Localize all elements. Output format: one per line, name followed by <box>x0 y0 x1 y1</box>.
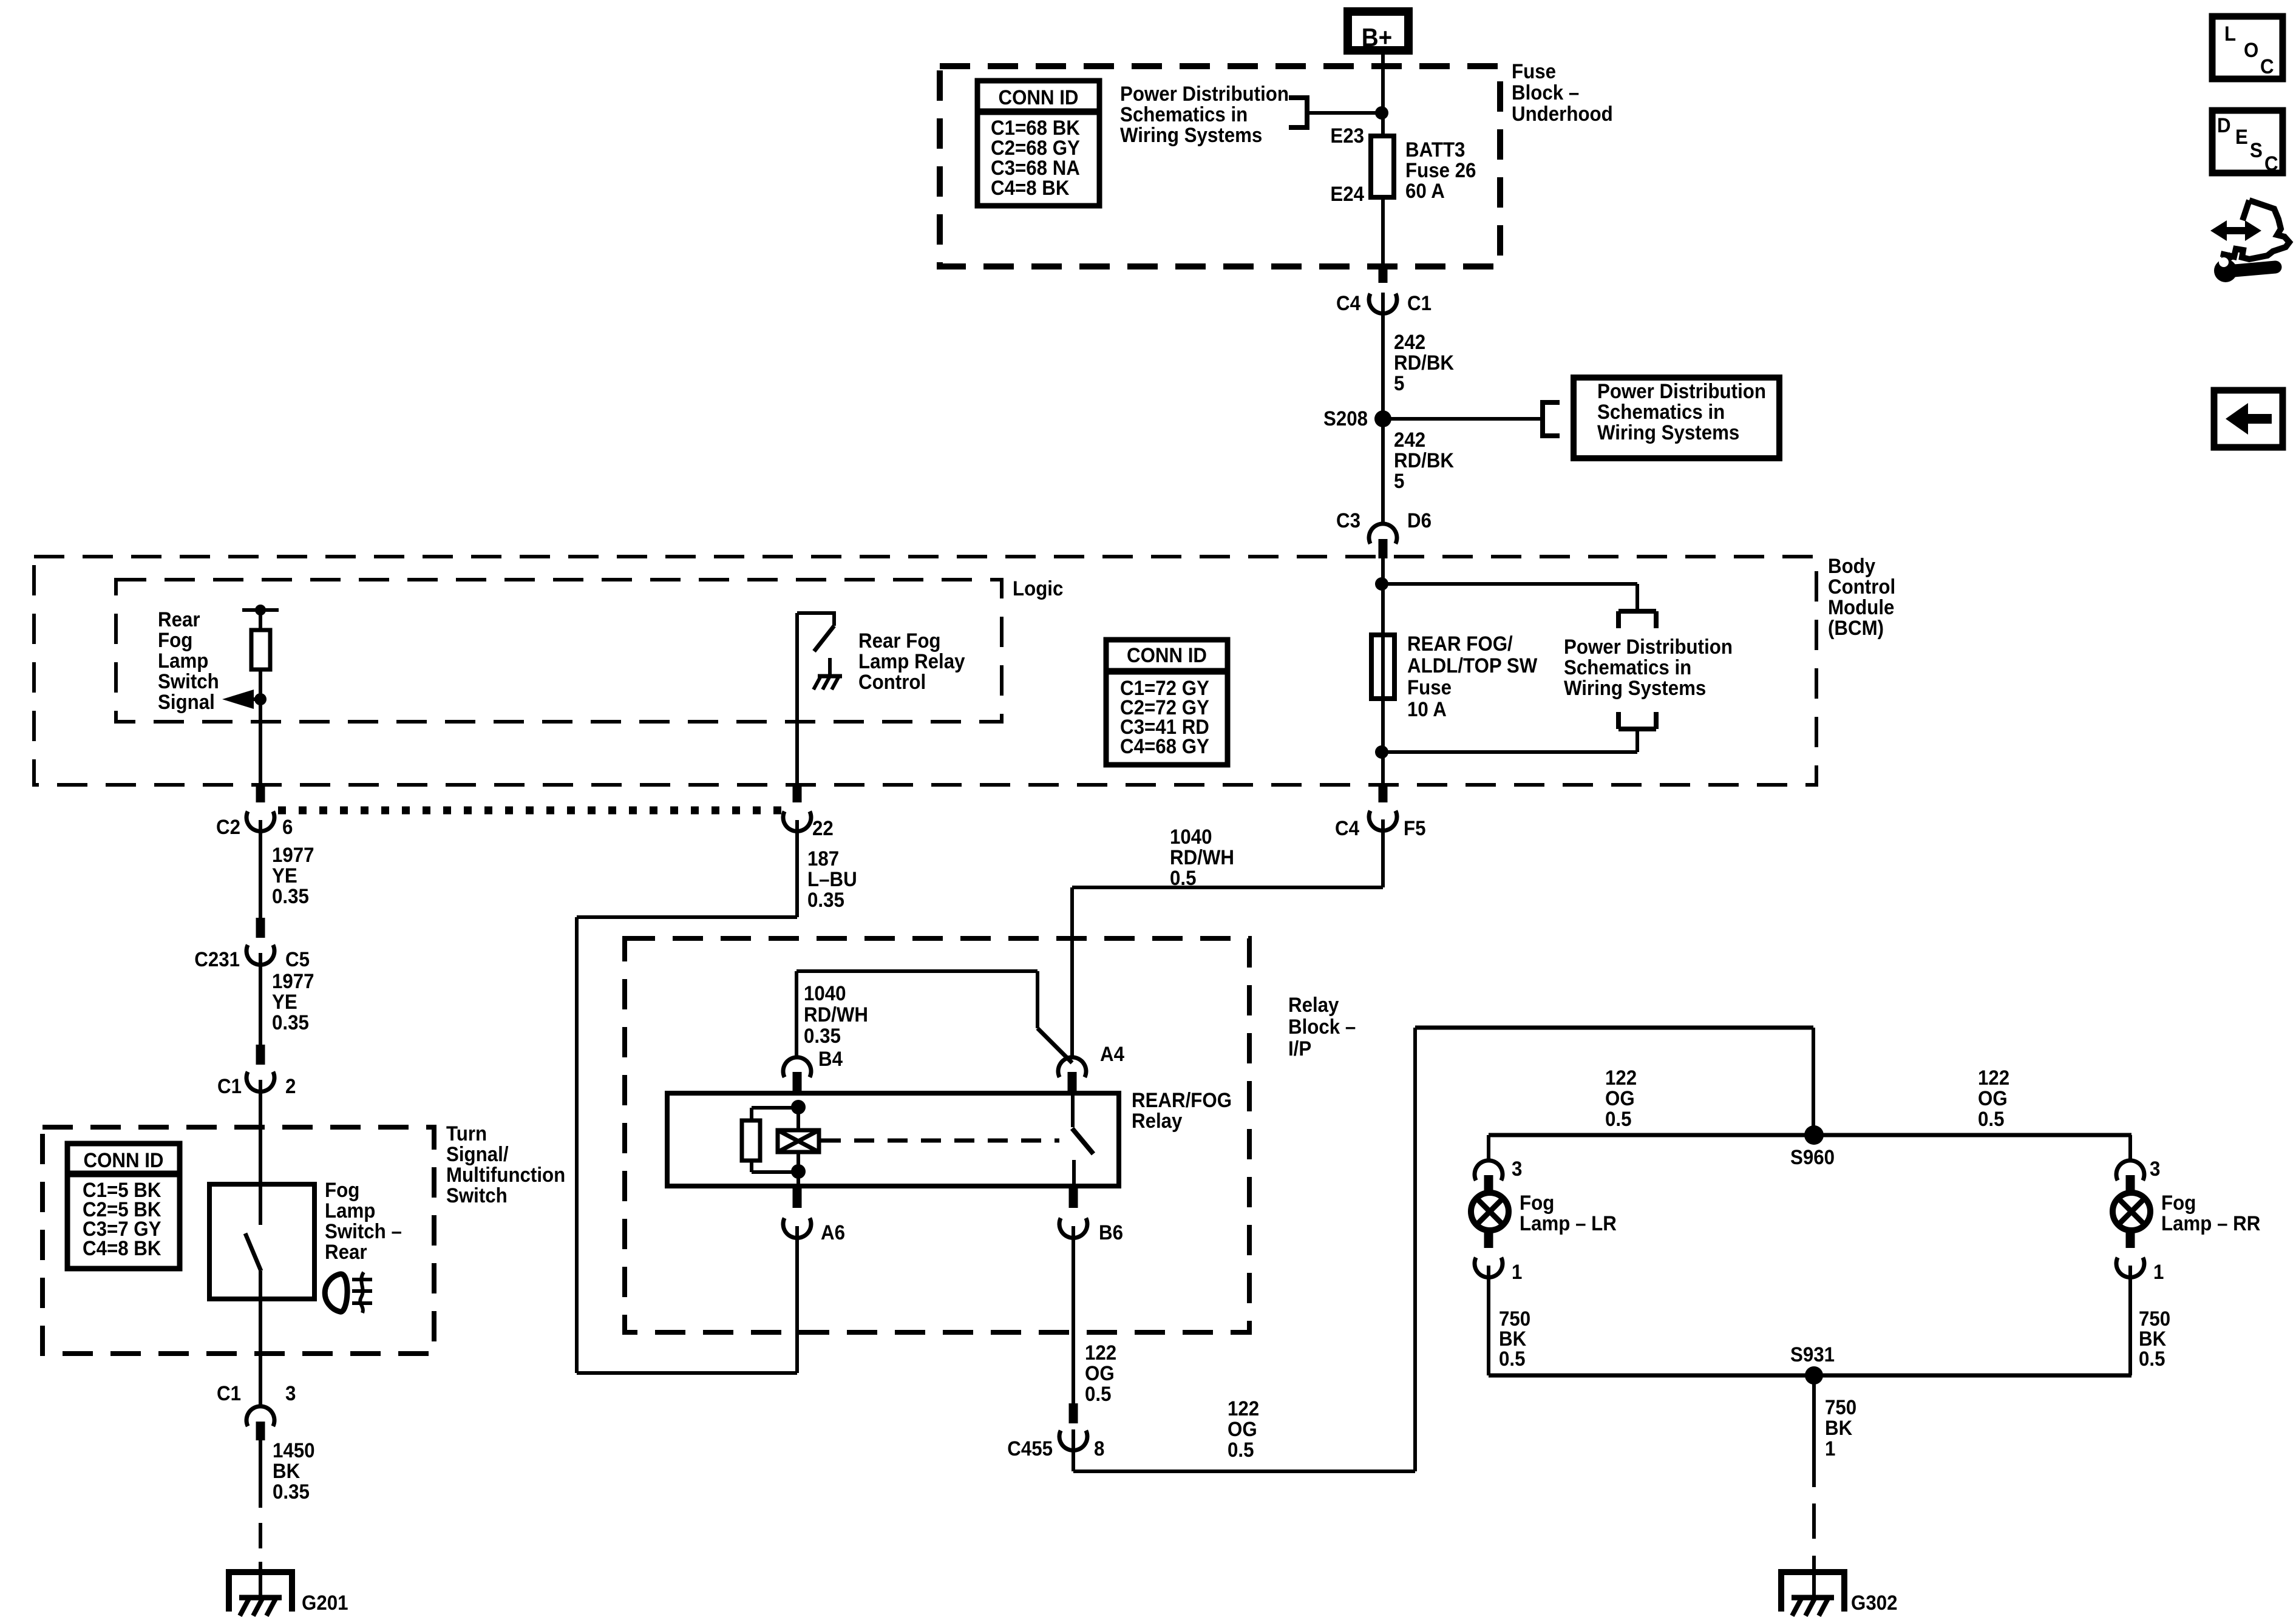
connector A6 of relay <box>783 1186 845 1244</box>
svg-text:0.5: 0.5 <box>1978 1107 2004 1131</box>
CONN ID table (fuse block) <box>977 81 1099 206</box>
label Fuse Block - Underhood <box>1512 59 1613 126</box>
svg-text:750: 750 <box>1825 1395 1856 1419</box>
CONN ID table (multifunction switch) <box>67 1144 180 1269</box>
svg-text:Signal: Signal <box>158 690 215 714</box>
svg-text:0.5: 0.5 <box>2139 1347 2165 1371</box>
wire B+ to fuse BATT3 <box>1381 55 1385 138</box>
svg-text:OG: OG <box>1228 1417 1257 1441</box>
icon wrench <box>2214 256 2275 282</box>
note Power Distribution Schematics in Wiring Systems (BCM) <box>1564 635 1733 700</box>
svg-text:Multifunction: Multifunction <box>446 1163 565 1187</box>
svg-text:0.5: 0.5 <box>1228 1438 1254 1462</box>
svg-text:YE: YE <box>272 864 297 887</box>
svg-text:C1: C1 <box>1407 291 1432 315</box>
fog lamp RR pin 1 <box>2116 1230 2164 1283</box>
wire B6 to C455 <box>1072 1226 1075 1405</box>
rear fog lamp relay control switch <box>797 611 834 651</box>
svg-text:Rear: Rear <box>325 1240 367 1264</box>
svg-text:Fuse 26: Fuse 26 <box>1405 158 1476 182</box>
label Body Control Module (BCM) <box>1828 554 1895 640</box>
wire pin 22 to relay A6 (187 L-BU) <box>577 820 797 1373</box>
svg-text:D6: D6 <box>1407 509 1432 532</box>
wire C3 through BCM to F5 <box>1381 558 1385 802</box>
svg-text:Signal/: Signal/ <box>446 1142 509 1166</box>
svg-text:L–BU: L–BU <box>807 867 857 891</box>
wire to internal power distribution (upper) <box>1382 584 1637 613</box>
junction dot switch signal <box>254 693 267 705</box>
label wire 122 OG 0.5 (right) <box>1978 1066 2009 1131</box>
label Relay Block - I/P <box>1288 993 1356 1060</box>
svg-text:S: S <box>2250 138 2263 162</box>
svg-text:E: E <box>2235 125 2248 149</box>
svg-text:2: 2 <box>285 1074 296 1098</box>
connector B6 of relay <box>1059 1186 1123 1244</box>
svg-text:3: 3 <box>1512 1157 1522 1181</box>
label wire 1040 RD/WH 0.35 <box>804 981 868 1048</box>
svg-text:242: 242 <box>1394 330 1425 354</box>
svg-text:OG: OG <box>1085 1361 1115 1385</box>
svg-text:3: 3 <box>285 1381 296 1405</box>
svg-text:1977: 1977 <box>272 969 314 993</box>
wire resistor to connector C2 pin 6 <box>259 670 262 787</box>
svg-text:C3: C3 <box>1336 509 1360 532</box>
svg-text:Fuse: Fuse <box>1512 59 1556 83</box>
wire pin 2 to fog lamp switch <box>259 1080 262 1184</box>
label E23 <box>1330 124 1364 147</box>
svg-text:Relay: Relay <box>1288 993 1339 1017</box>
fuse block - underhood dashed box <box>940 66 1500 266</box>
svg-text:YE: YE <box>272 990 297 1014</box>
svg-text:OG: OG <box>1978 1086 2008 1110</box>
svg-text:0.5: 0.5 <box>1085 1382 1111 1406</box>
connector C4/F5 of BCM <box>1335 787 1425 839</box>
note Power Distribution Schematics in Wiring Systems (fuse block) <box>1120 82 1289 147</box>
wire fuse 26 to connector C4 <box>1381 197 1385 269</box>
label wire 122 OG 0.5 (B6) <box>1085 1341 1116 1406</box>
svg-text:B6: B6 <box>1099 1221 1123 1244</box>
svg-text:0.5: 0.5 <box>1170 866 1196 890</box>
svg-text:B4: B4 <box>818 1047 843 1071</box>
svg-text:0.35: 0.35 <box>273 1480 310 1503</box>
connector B4 of relay <box>783 1047 843 1093</box>
fuse REAR FOG/ALDL/TOP SW 10A <box>1371 635 1394 699</box>
connector C1 pin 3 <box>217 1381 296 1440</box>
relay block I/P dashed box <box>625 938 1249 1332</box>
svg-text:8: 8 <box>1094 1437 1104 1460</box>
wire C455 to S960 <box>1073 1028 1813 1471</box>
svg-text:S960: S960 <box>1790 1145 1835 1169</box>
svg-text:Switch –: Switch – <box>325 1219 402 1243</box>
svg-text:Fog: Fog <box>158 628 192 652</box>
svg-text:122: 122 <box>1085 1341 1116 1364</box>
label E24 <box>1330 182 1364 206</box>
svg-text:C1: C1 <box>217 1381 241 1405</box>
logic dashed box <box>116 580 1002 722</box>
svg-text:Power Distribution: Power Distribution <box>1120 82 1289 106</box>
svg-text:Schematics in: Schematics in <box>1597 400 1725 424</box>
svg-text:1: 1 <box>2153 1260 2164 1284</box>
svg-text:Block –: Block – <box>1512 81 1579 104</box>
svg-text:Fog: Fog <box>325 1178 359 1202</box>
svg-text:CONN ID: CONN ID <box>83 1148 163 1172</box>
svg-text:C: C <box>2264 152 2278 175</box>
svg-text:Lamp – LR: Lamp – LR <box>1520 1212 1617 1235</box>
wire F5 to relay A4 <box>1072 819 1383 1059</box>
label Logic <box>1013 577 1063 600</box>
svg-text:C: C <box>2260 55 2274 78</box>
svg-text:A4: A4 <box>1100 1042 1124 1066</box>
svg-text:0.5: 0.5 <box>1605 1107 1631 1131</box>
wire switch to connector C1 pin 3 <box>259 1299 262 1406</box>
wire S208 to power distribution note <box>1383 417 1543 421</box>
relay coil element <box>778 1130 819 1152</box>
fog lamp RR pin 3 <box>2116 1157 2160 1193</box>
CONN ID table (BCM) <box>1106 640 1228 765</box>
svg-text:3: 3 <box>2150 1157 2160 1181</box>
svg-text:C4: C4 <box>1336 291 1360 315</box>
svg-text:CONN ID: CONN ID <box>998 86 1078 109</box>
icon back arrow box <box>2214 390 2283 447</box>
svg-text:Block –: Block – <box>1288 1015 1356 1039</box>
svg-text:Lamp Relay: Lamp Relay <box>858 649 965 673</box>
bracket to power distribution note <box>1289 95 1307 130</box>
svg-text:Lamp: Lamp <box>325 1199 375 1222</box>
svg-text:D: D <box>2217 114 2231 137</box>
fog lamp LR <box>1471 1193 1509 1230</box>
fuse BATT3 Fuse 26 60 A <box>1371 136 1394 197</box>
svg-text:Lamp – RR: Lamp – RR <box>2161 1212 2260 1235</box>
svg-text:Control: Control <box>1828 575 1895 598</box>
signal arrow to rear fog lamp switch <box>222 690 260 709</box>
svg-text:BATT3: BATT3 <box>1405 138 1465 161</box>
label wire 1977 YE 0.35 (lower) <box>272 969 314 1034</box>
svg-text:122: 122 <box>1978 1066 2009 1090</box>
svg-text:0.35: 0.35 <box>807 888 844 912</box>
svg-text:1977: 1977 <box>272 843 314 867</box>
label Rear Fog Lamp Switch Signal <box>158 608 219 714</box>
label REAR/FOG Relay <box>1132 1088 1232 1133</box>
splice S208 <box>1323 407 1391 430</box>
svg-text:Schematics in: Schematics in <box>1120 103 1248 126</box>
label wire 750 BK 0.5 (right) <box>2139 1307 2170 1371</box>
junction dot BCM upper <box>1375 577 1388 591</box>
wire fog lamp RR to ground loop <box>2128 1266 2132 1375</box>
svg-text:REAR FOG/: REAR FOG/ <box>1407 632 1513 656</box>
svg-text:C5: C5 <box>285 947 310 971</box>
svg-text:6: 6 <box>282 815 293 839</box>
svg-text:L: L <box>2224 22 2236 46</box>
fog lamp switch contact <box>245 1184 261 1299</box>
svg-text:Rear: Rear <box>158 608 200 631</box>
icon adjust double arrow <box>2210 220 2261 241</box>
label BATT3 Fuse 26 60 A <box>1405 138 1476 203</box>
svg-text:1040: 1040 <box>804 981 846 1005</box>
wire S931 to G302 <box>1812 1375 1816 1598</box>
svg-text:RD/WH: RD/WH <box>1170 846 1234 869</box>
wire fog lamp LR to ground loop <box>1487 1266 1490 1375</box>
svg-text:C4=8 BK: C4=8 BK <box>991 176 1070 200</box>
connector C4/C1 of fuse block <box>1336 267 1432 314</box>
svg-text:Fuse: Fuse <box>1407 676 1452 699</box>
svg-text:RD/WH: RD/WH <box>804 1003 868 1026</box>
label Fog Lamp Switch - Rear <box>325 1178 402 1264</box>
splice S960 <box>1790 1125 1835 1168</box>
svg-text:0.35: 0.35 <box>804 1024 841 1048</box>
svg-text:B+: B+ <box>1362 22 1392 52</box>
svg-text:I/P: I/P <box>1288 1037 1311 1060</box>
splice S931 <box>1790 1343 1835 1385</box>
svg-text:C455: C455 <box>1007 1437 1053 1460</box>
icon hand outline <box>2221 200 2289 259</box>
svg-text:Switch: Switch <box>158 670 219 693</box>
label Fog Lamp - LR <box>1520 1191 1617 1235</box>
fog lamp LR pin 3 <box>1475 1157 1522 1193</box>
svg-text:E23: E23 <box>1330 124 1364 147</box>
internal power distribution lower bracket <box>1618 712 1656 729</box>
label wire 1450 BK 0.35 <box>273 1439 315 1503</box>
wire bracket to junction E23 <box>1307 111 1382 115</box>
connector A4 of relay <box>1058 1042 1124 1093</box>
wire C5 to C1 <box>259 953 262 1046</box>
svg-text:Rear Fog: Rear Fog <box>858 629 941 653</box>
svg-text:BK: BK <box>273 1459 301 1483</box>
wire C1 to S208 <box>1381 293 1385 419</box>
wire relay control to pin 22 <box>795 613 799 787</box>
resistor rear fog lamp switch signal <box>251 630 270 670</box>
label wire 187 L-BU 0.35 <box>807 847 857 912</box>
note box Power Distribution Schematics in Wiring Systems <box>1574 378 1779 458</box>
svg-text:0.5: 0.5 <box>1499 1347 1525 1371</box>
label wire 1977 YE 0.35 (upper) <box>272 843 314 908</box>
svg-text:122: 122 <box>1228 1397 1259 1420</box>
svg-text:Body: Body <box>1828 554 1875 578</box>
svg-text:C231: C231 <box>194 947 240 971</box>
svg-text:10 A: 10 A <box>1407 697 1447 721</box>
svg-text:C1: C1 <box>217 1074 242 1098</box>
svg-text:Fog: Fog <box>1520 1191 1554 1215</box>
connector C3/D6 of BCM <box>1336 509 1432 558</box>
svg-text:Wiring Systems: Wiring Systems <box>1597 421 1739 444</box>
svg-text:S931: S931 <box>1790 1343 1835 1366</box>
svg-text:O: O <box>2244 38 2258 62</box>
wire fog lamp ground loop <box>1489 1374 2131 1378</box>
body control module dashed box <box>34 557 1816 785</box>
fog lamp icon <box>325 1272 372 1313</box>
connector C231/C5 <box>194 918 310 971</box>
fog lamp RR <box>2113 1193 2150 1230</box>
wire S208 to connector C3 <box>1381 419 1385 524</box>
turn signal/multifunction switch dashed box <box>42 1127 434 1354</box>
label wire 750 BK 0.5 (left) <box>1499 1307 1530 1371</box>
svg-text:Module: Module <box>1828 595 1894 619</box>
connector C2 pin 22 of BCM <box>783 787 834 839</box>
svg-text:REAR/FOG: REAR/FOG <box>1132 1088 1232 1112</box>
svg-text:22: 22 <box>812 816 834 840</box>
label Turn Signal/Multifunction Switch <box>446 1122 565 1207</box>
internal ground of relay control <box>813 658 842 690</box>
label wire 1040 RD/WH 0.5 <box>1170 825 1234 890</box>
label wire 122 OG 0.5 (C455) <box>1228 1397 1259 1462</box>
internal power distribution upper bracket <box>1618 611 1656 628</box>
ground G302 <box>1778 1572 1897 1616</box>
svg-text:Turn: Turn <box>446 1122 487 1145</box>
node rear fog lamp switch signal <box>242 605 279 615</box>
svg-text:Schematics in: Schematics in <box>1564 656 1691 679</box>
icon DESC box <box>2212 110 2283 175</box>
svg-text:RD/BK: RD/BK <box>1394 351 1454 375</box>
svg-text:BK: BK <box>1825 1416 1853 1440</box>
svg-text:F5: F5 <box>1404 816 1426 840</box>
svg-text:0.35: 0.35 <box>272 1011 309 1034</box>
svg-text:G201: G201 <box>302 1591 348 1615</box>
wire S960 to fog lamps <box>1489 1135 2131 1162</box>
svg-text:C4=68 GY: C4=68 GY <box>1120 734 1209 758</box>
label wire 122 OG 0.5 (left) <box>1605 1066 1637 1131</box>
bracket to power distribution box <box>1543 400 1560 438</box>
svg-text:A6: A6 <box>821 1221 845 1244</box>
connector C2 dotted tie line <box>278 807 782 815</box>
svg-text:Wiring Systems: Wiring Systems <box>1120 123 1262 147</box>
connector C2 pin 6 of BCM <box>216 787 293 838</box>
svg-text:RD/BK: RD/BK <box>1394 449 1454 472</box>
svg-text:242: 242 <box>1394 428 1425 452</box>
label Rear Fog Lamp Relay Control <box>858 629 965 694</box>
junction dot BCM lower <box>1375 745 1388 759</box>
svg-text:5: 5 <box>1394 469 1404 493</box>
relay link dashed <box>821 1139 1059 1143</box>
connector C1 pin 2 <box>217 1045 296 1097</box>
svg-text:CONN ID: CONN ID <box>1127 643 1207 667</box>
power terminal B+ <box>1348 12 1408 52</box>
fog lamp switch box <box>209 1184 314 1299</box>
svg-text:C4=8 BK: C4=8 BK <box>83 1236 161 1260</box>
svg-text:0.35: 0.35 <box>272 884 309 908</box>
svg-text:(BCM): (BCM) <box>1828 616 1884 640</box>
svg-text:Relay: Relay <box>1132 1109 1182 1133</box>
svg-text:Logic: Logic <box>1013 577 1063 600</box>
svg-text:122: 122 <box>1605 1066 1637 1090</box>
connector C455 pin 8 <box>1007 1403 1104 1460</box>
svg-text:187: 187 <box>807 847 839 870</box>
svg-text:S208: S208 <box>1323 407 1368 430</box>
svg-text:G302: G302 <box>1851 1591 1897 1615</box>
svg-text:OG: OG <box>1605 1086 1635 1110</box>
svg-text:1450: 1450 <box>273 1439 315 1462</box>
wire node to resistor <box>259 610 262 630</box>
svg-text:Underhood: Underhood <box>1512 102 1613 126</box>
label wire 242 RD/BK 5 (lower) <box>1394 428 1454 493</box>
svg-text:Fog: Fog <box>2161 1191 2196 1215</box>
svg-text:Power Distribution: Power Distribution <box>1597 379 1766 403</box>
wire pin 6 to C231 <box>259 820 262 919</box>
relay coil resistor <box>742 1120 760 1161</box>
svg-text:60 A: 60 A <box>1405 179 1445 203</box>
junction dot above fuse 26 <box>1375 106 1388 120</box>
wire 1450 BK to G201 <box>259 1440 262 1598</box>
label REAR FOG/ALDL/TOP SW Fuse 10 A <box>1407 632 1537 721</box>
svg-text:Wiring Systems: Wiring Systems <box>1564 676 1706 700</box>
svg-text:Lamp: Lamp <box>158 649 208 673</box>
svg-text:Control: Control <box>858 670 926 694</box>
relay coil branch <box>752 1100 806 1186</box>
svg-text:Power Distribution: Power Distribution <box>1564 635 1733 659</box>
svg-text:ALDL/TOP SW: ALDL/TOP SW <box>1407 654 1537 677</box>
ground G201 <box>226 1572 348 1616</box>
label wire 750 BK 1 <box>1825 1395 1856 1460</box>
svg-text:5: 5 <box>1394 371 1404 395</box>
svg-text:E24: E24 <box>1330 182 1364 206</box>
icon LOC box <box>2212 16 2283 79</box>
wire internal power distribution (lower) <box>1382 729 1637 752</box>
relay switch blade <box>1072 1093 1093 1186</box>
svg-text:C4: C4 <box>1335 816 1359 840</box>
fog lamp LR pin 1 <box>1475 1230 1522 1283</box>
label wire 242 RD/BK 5 (upper) <box>1394 330 1454 395</box>
svg-text:C2: C2 <box>216 815 240 839</box>
label Fog Lamp - RR <box>2161 1191 2260 1235</box>
relay box REAR/FOG <box>667 1093 1119 1186</box>
svg-text:Switch: Switch <box>446 1184 508 1207</box>
svg-text:1040: 1040 <box>1170 825 1212 849</box>
wire 1040 RD/WH 0.35 branch <box>796 971 1072 1063</box>
svg-text:1: 1 <box>1512 1260 1522 1284</box>
svg-text:1: 1 <box>1825 1437 1835 1460</box>
